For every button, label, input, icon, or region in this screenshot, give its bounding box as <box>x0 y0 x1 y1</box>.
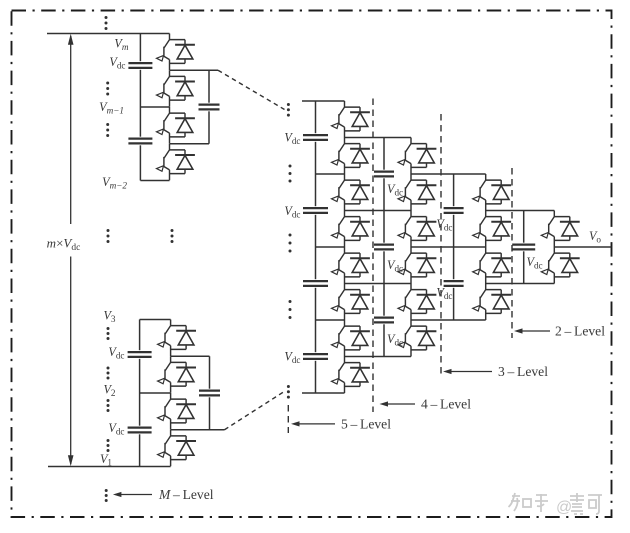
capacitor C13 (Vdc, 4-level stage) <box>374 316 394 325</box>
wire node V3 (bus to chain, block top) <box>140 319 171 321</box>
diode D22 (antiparallel) <box>411 326 436 350</box>
wire node Vm-2 (bus to chain, block bottom) <box>140 180 169 182</box>
dots continuation (above rail) <box>105 16 108 30</box>
transistor Q24 (IGBT) <box>473 211 486 248</box>
wire 5-level to 4-level (mid upper) <box>345 210 412 212</box>
diode D17 (antiparallel) <box>411 144 436 168</box>
transistor Q1 (IGBT) <box>157 34 170 71</box>
diode D9 (antiparallel) <box>345 107 370 131</box>
diode D21 (antiparallel) <box>411 290 436 314</box>
wire 4-level to 3-level (top) <box>411 173 486 175</box>
transistor Q20 (IGBT) <box>398 247 411 284</box>
wire bottom rail (V_1 node) <box>48 466 171 468</box>
capacitor C2 (Vdc, top block lower) <box>128 137 152 146</box>
label M-Level with arrow <box>119 494 152 496</box>
wire 5-level stage bottom <box>302 392 345 394</box>
capacitor C4 (Vdc, bottom block upper) <box>128 350 152 359</box>
diode D3 (antiparallel) <box>170 113 195 137</box>
label 4-Level with arrow <box>386 403 416 405</box>
capacitor C12 (Vdc, 4-level stage) <box>374 243 394 252</box>
capacitor C7 (Vdc, 5-level stage) <box>303 133 328 142</box>
wire 3-level to 2-level (top) <box>486 210 555 212</box>
wire junction Q7-Q8 to flying bus <box>171 429 225 431</box>
transistor Q7 (IGBT) <box>158 393 171 430</box>
transistor Q11 (IGBT) <box>332 174 345 211</box>
svg-text:4 – Level: 4 – Level <box>421 397 471 412</box>
diode D5 (antiparallel) <box>171 326 196 350</box>
wire output Vo node <box>554 246 611 248</box>
wire flying-capacitor bus (top block) <box>208 70 210 144</box>
transistor Q12 (IGBT) <box>332 211 345 248</box>
transistor Q13 (IGBT) <box>332 247 345 284</box>
dots (label column) <box>107 367 110 380</box>
wire dc bus (3-level stage) <box>453 174 455 320</box>
diode D14 (antiparallel) <box>345 290 370 314</box>
dots continuation (below rail) <box>105 489 108 502</box>
diode D25 (antiparallel) <box>486 253 511 277</box>
separator line (5-level boundary, dashed) <box>287 405 289 433</box>
svg-text:5 – Level: 5 – Level <box>341 416 391 431</box>
diode D10 (antiparallel) <box>345 144 370 168</box>
transistor Q25 (IGBT) <box>473 247 486 284</box>
wire node Vm-1 (bus to chain) <box>140 106 169 108</box>
wire left dc bus (top block) <box>139 34 141 181</box>
dots (label column) <box>107 439 110 452</box>
diode D26 (antiparallel) <box>486 290 511 314</box>
transistor Q8 (IGBT) <box>158 430 171 467</box>
dots (label column) <box>106 82 109 96</box>
svg-text:@: @ <box>556 499 572 516</box>
transistor Q16 (IGBT) <box>332 357 345 394</box>
diode D15 (antiparallel) <box>345 326 370 350</box>
capacitor C5 (Vdc, bottom block lower) <box>128 426 152 435</box>
transistor Q2 (IGBT) <box>157 70 170 107</box>
diode D1 (antiparallel) <box>170 40 195 64</box>
dots continuation (top connector end) <box>287 103 290 117</box>
wire 5-level to 4-level (top) <box>345 137 412 139</box>
dots (label column) <box>107 327 110 340</box>
capacitor C9 (Vdc, 5-level stage) <box>303 279 328 288</box>
label 5-Level with arrow <box>297 423 335 425</box>
dots (5-level bus labels) <box>289 300 292 319</box>
diode D20 (antiparallel) <box>411 253 436 277</box>
transistor Q4 (IGBT) <box>157 144 170 181</box>
wire junction Q5-Q6 to flying bus <box>171 355 210 357</box>
transistor Q3 (IGBT) <box>157 107 170 144</box>
dots (label column) <box>107 399 110 412</box>
dots continuation (label column mid) <box>107 229 110 243</box>
dots (5-level bus labels) <box>289 234 292 253</box>
diode D23 (antiparallel) <box>486 180 511 204</box>
wire 5-level to 4-level (bottom) <box>345 356 412 358</box>
dots (label column) <box>106 123 109 137</box>
transistor Q17 (IGBT) <box>398 138 411 175</box>
label 2-Level with arrow <box>520 330 550 332</box>
wire left dc bus (bottom block) <box>139 320 141 467</box>
wire 5-level to 4-level (mid lower) <box>345 283 412 285</box>
wire 3-level to 2-level (bottom) <box>486 283 555 285</box>
diode D2 (antiparallel) <box>170 76 195 100</box>
diode D28 (antiparallel) <box>554 253 579 277</box>
dots (5-level bus labels) <box>289 165 292 183</box>
capacitor C14 (Vdc, 3-level stage) <box>444 206 464 215</box>
capacitor C3 (flying, top block) <box>199 103 220 112</box>
diode D6 (antiparallel) <box>171 362 196 386</box>
wire node V2 (bus to chain) <box>140 392 171 394</box>
diode D24 (antiparallel) <box>486 217 511 241</box>
wire 5-level stage top (to bus C7) <box>302 100 345 102</box>
wire row (C9-C10 tap to stage chain) <box>316 319 345 321</box>
wire dc bus (5-level stage) <box>315 101 317 393</box>
wire junction Q3-Q4 to flying bus <box>170 143 210 145</box>
diode D13 (antiparallel) <box>345 253 370 277</box>
capacitor C15 (Vdc, 3-level stage) <box>444 279 464 288</box>
dots continuation (bottom connector end) <box>287 385 290 399</box>
diode D8 (antiparallel) <box>171 436 196 460</box>
dots continuation (chain mid) <box>171 229 174 243</box>
dashed connector (bottom block to 5-level stage) <box>225 391 286 430</box>
transistor Q14 (IGBT) <box>332 284 345 321</box>
diode D12 (antiparallel) <box>345 217 370 241</box>
separator line (4-level boundary, dashed) <box>372 99 374 413</box>
transistor Q18 (IGBT) <box>398 174 411 211</box>
diode D19 (antiparallel) <box>411 217 436 241</box>
wire row (C7-C8 tap to stage chain) <box>316 173 345 175</box>
svg-text:2 – Level: 2 – Level <box>555 324 605 339</box>
watermark zhihu (decorative, light gray) <box>509 493 603 516</box>
arrow m x Vdc (lower segment) <box>70 257 72 465</box>
svg-text:3 – Level: 3 – Level <box>498 364 548 379</box>
arrow m x Vdc (upper segment) <box>70 36 72 224</box>
wire flying-capacitor bus (bottom block) <box>209 356 211 430</box>
svg-text:M – Level: M – Level <box>158 487 214 502</box>
transistor Q26 (IGBT) <box>473 284 486 321</box>
diode D7 (antiparallel) <box>171 399 196 423</box>
dashed connector (top block to 5-level stage) <box>218 70 285 109</box>
wire row (C8-C9 tap to stage chain) <box>316 246 345 248</box>
transistor Q19 (IGBT) <box>398 211 411 248</box>
wire 4-level to 3-level (bottom) <box>411 319 486 321</box>
transistor Q15 (IGBT) <box>332 320 345 357</box>
diode D18 (antiparallel) <box>411 180 436 204</box>
separator line (3-level boundary, dashed) <box>440 114 442 378</box>
transistor Q28 (IGBT) <box>541 247 554 284</box>
diode D4 (antiparallel) <box>170 150 195 174</box>
transistor Q9 (IGBT) <box>332 101 345 138</box>
capacitor C6 (flying, bottom block) <box>199 389 220 398</box>
transistor Q10 (IGBT) <box>332 138 345 175</box>
transistor Q23 (IGBT) <box>473 174 486 211</box>
diode D11 (antiparallel) <box>345 180 370 204</box>
transistor Q27 (IGBT) <box>541 211 554 248</box>
wire junction Q1-Q2 to flying bus <box>170 69 219 71</box>
wire 4-level to 3-level (mid) <box>411 246 486 248</box>
diode D16 (antiparallel) <box>345 363 370 387</box>
wire dc bus (2-level stage) <box>523 211 525 284</box>
separator line (2-level boundary, dashed) <box>511 168 513 338</box>
label 3-Level with arrow <box>449 371 492 373</box>
capacitor C10 (Vdc, 5-level stage) <box>303 352 328 361</box>
transistor Q6 (IGBT) <box>158 356 171 393</box>
wire dc bus (4-level stage) <box>383 138 385 357</box>
capacitor C16 (Vdc, 2-level stage) <box>512 243 535 252</box>
transistor Q22 (IGBT) <box>398 320 411 357</box>
diode D27 (antiparallel) <box>554 217 579 241</box>
transistor Q5 (IGBT) <box>158 320 171 357</box>
wire top rail (V_m node) <box>47 33 170 35</box>
transistor Q21 (IGBT) <box>398 284 411 321</box>
capacitor C8 (Vdc, 5-level stage) <box>303 206 328 215</box>
capacitor C11 (Vdc, 4-level stage) <box>374 170 394 179</box>
capacitor C1 (Vdc, top block upper) <box>128 61 152 70</box>
